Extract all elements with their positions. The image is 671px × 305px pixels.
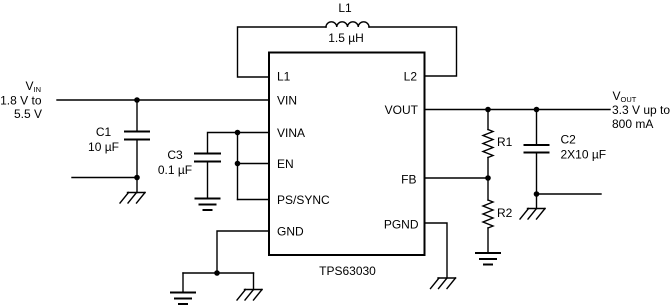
- svg-text:1.5 µH: 1.5 µH: [328, 31, 364, 45]
- node C2/return junction: [534, 191, 540, 197]
- svg-text:L2: L2: [404, 70, 418, 84]
- svg-text:1.8 V to: 1.8 V to: [0, 94, 42, 108]
- ground (hatched) GND right: [237, 290, 262, 301]
- wire PGND: [425, 223, 447, 278]
- wire GND bus right leg: [253, 273, 255, 290]
- wire L2 pin loop right: [369, 27, 457, 76]
- ground (bars) under R2: [476, 253, 500, 265]
- svg-text:TPS63030: TPS63030: [319, 264, 376, 278]
- svg-text:L1: L1: [338, 1, 352, 15]
- node GND bus junction: [214, 270, 220, 276]
- svg-text:3.3 V up to: 3.3 V up to: [612, 103, 670, 117]
- svg-text:2X10 µF: 2X10 µF: [561, 148, 607, 162]
- svg-text:PGND: PGND: [384, 218, 419, 232]
- svg-text:10 µF: 10 µF: [88, 140, 119, 154]
- svg-text:C1: C1: [96, 125, 112, 139]
- capacitor C1: [125, 100, 149, 178]
- op-amp U1 TPS63030 IC body: [269, 53, 425, 256]
- svg-text:EN: EN: [277, 157, 294, 171]
- wire VOUT return: [537, 193, 602, 195]
- wire C1 ground stub: [136, 178, 138, 193]
- svg-text:C3: C3: [167, 148, 183, 162]
- svg-text:5.5 V: 5.5 V: [14, 107, 42, 121]
- ground (hatched) under C1: [120, 193, 145, 204]
- svg-text:0.1 µF: 0.1 µF: [158, 163, 192, 177]
- ground (bars) GND left: [171, 293, 195, 305]
- wire GND bus: [183, 272, 254, 274]
- svg-text:PS/SYNC: PS/SYNC: [277, 193, 330, 207]
- wire VINA to C3: [208, 133, 269, 154]
- wire GND pin to bus: [217, 231, 268, 273]
- wire L1 pin loop left: [238, 27, 327, 77]
- ground (hatched) under C2: [520, 209, 545, 220]
- node VINA/C3 junction: [235, 130, 241, 136]
- capacitor C2: [525, 110, 549, 195]
- wire VIN rail: [57, 99, 268, 101]
- svg-text:GND: GND: [277, 225, 304, 239]
- node VIN/C1 junction: [134, 97, 140, 103]
- node C1/return junction: [134, 175, 140, 181]
- ground (bars) under C3: [196, 199, 220, 211]
- wire C2 ground stub: [536, 194, 538, 208]
- svg-text:R2: R2: [497, 206, 513, 220]
- wire VOUT rail: [425, 109, 610, 111]
- svg-text:800 mA: 800 mA: [612, 117, 653, 131]
- node VOUT/R1 junction: [485, 107, 491, 113]
- svg-text:VINA: VINA: [277, 126, 305, 140]
- wire GND bus left leg: [182, 273, 184, 292]
- wire VIN return: [72, 177, 137, 179]
- wire EN pin stub: [238, 163, 269, 165]
- svg-text:VOUT: VOUT: [385, 103, 419, 117]
- node EN junction: [235, 161, 241, 167]
- svg-text:R1: R1: [497, 135, 513, 149]
- inductor L1: [326, 22, 369, 27]
- node FB junction: [485, 175, 491, 181]
- wire FB: [425, 177, 488, 179]
- svg-text:FB: FB: [401, 173, 416, 187]
- svg-text:VIN: VIN: [277, 94, 297, 108]
- ground (hatched) under PGND: [431, 278, 456, 289]
- wire EN branch vertical: [237, 133, 239, 200]
- svg-text:C2: C2: [561, 133, 577, 147]
- wire PS/SYNC pin stub: [238, 199, 269, 201]
- svg-text:L1: L1: [277, 70, 291, 84]
- node VOUT/C2 junction: [534, 107, 540, 113]
- capacitor C3: [195, 154, 220, 199]
- resistor R1: [483, 110, 493, 179]
- resistor R2: [483, 178, 493, 253]
